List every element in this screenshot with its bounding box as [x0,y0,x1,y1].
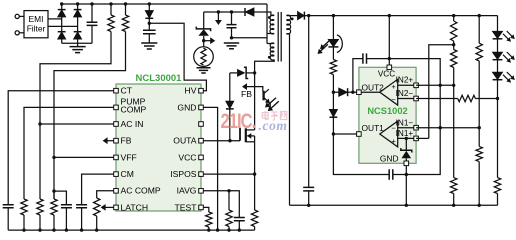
resistor R11 [451,21,457,41]
wire op-amp1 + input to IN1+ pin [398,137,416,139]
transformer T1 secondary polarity dot [291,18,294,21]
junction at (54,191.1) [52,189,55,192]
wire bridge left column bottom [61,39,63,43]
wire R7 to ground rail [254,227,256,231]
wire primary bottom to switch node [255,60,275,73]
clamp diode D6 [245,8,254,16]
optocoupler U3 phototransistor [262,91,264,101]
wire ISPOS pin to sense node [203,173,254,175]
capacitor C6 plates (CM) [76,205,87,208]
junction at (229,190.8) [227,189,230,192]
bulk capacitor C1 [91,4,93,22]
wire R1 to AC IN column [40,32,111,200]
clamp network top line [204,11,245,13]
resistor R9 (TEST) [206,212,212,227]
capacitor C5 plates (VFF) [61,205,72,208]
wire R3 to ground rail [23,215,25,230]
wire AC IN pin [40,123,114,125]
secondary output rail [305,15,498,17]
AC input terminal bottom [15,31,19,35]
ground symbol at C2 [141,43,157,49]
junction at (308.7,205.3) [307,204,310,207]
wire D10 to OUT1 node [332,117,334,134]
wire C7 to ground rail [238,221,240,230]
pin FB (left) of NCL30001 [114,138,119,143]
watermark chinese characters [262,111,287,120]
FB net arrow at NCL30001 FB pin [107,140,114,142]
junction at (453.7,15.6) [452,14,455,17]
junction at (96.7,230.1) [95,228,98,231]
resistor R3 (PUMP COMP) [21,199,27,215]
wire terminal to EMI filter top [19,15,24,17]
svg-text:IN1−: IN1− [396,118,414,127]
potentiometer R6 (AC COMP / LATCH) [94,198,100,216]
svg-text:IN1+: IN1+ [396,129,414,138]
junction at (479.2,15.6) [478,14,481,17]
junction at (406.3,205.3) [405,204,408,207]
bridge rectifier diode D4 (right bottom) [77,17,79,32]
junction at (111,4) [109,2,112,5]
junction at (497.5,98.5) [496,97,499,100]
junction at (479.2,205.3) [478,204,481,207]
wire clamp diode to primary top [254,12,274,16]
junction at (54,157.4) [52,156,55,159]
wire C10 to return rail [308,191,310,205]
svg-text:HV: HV [185,86,197,96]
top bulk rail [62,3,267,5]
pin HV (right) of NCL30001 [199,88,204,93]
optocoupler U3 LED [332,16,334,40]
junction at (254.6,174.1) [253,172,256,175]
capacitor C2 plates [143,30,156,33]
diode D5 (HV startup feed) [148,4,150,11]
svg-text:21IC.: 21IC. [221,110,256,133]
wire C6 to ground rail [81,208,83,230]
junction at (406.3,138.4) [405,137,408,140]
wire IAVG pin to C7 [203,191,239,218]
junction at (389.3,58.6) [388,57,391,60]
wire R5 to ground rail [53,215,55,230]
LED D13 [493,72,503,79]
wire VFF node to R5 [53,191,55,199]
resistor R5 (VFF) [51,199,57,215]
svg-text:AC COMP: AC COMP [121,186,161,196]
junction at (218.4,12) [217,10,220,13]
zener diode ZD1 [203,12,205,29]
pin VCC (right) of NCL30001 [199,155,204,160]
svg-text:VCC: VCC [378,69,395,78]
wire terminal to EMI filter bottom [19,32,24,34]
junction at (229,230.1) [227,228,230,231]
wire TEST pin to R9 [203,207,209,212]
capacitor C8 plates [389,169,393,179]
LED string feed [497,16,499,32]
LED D11 [493,31,503,38]
wire R12 down [453,68,455,178]
resistor R7 (current sense) [251,210,257,227]
wire IN1- pin to R13 column [416,127,479,129]
wire HV startup to HV pin [149,23,206,90]
wire output cap branch down [308,16,310,188]
junction at (125.5,4) [124,2,127,5]
junction at (308.7,15.6) [307,14,310,17]
wire VCC node to C9 [367,58,389,60]
resistor R16 zigzag [458,95,476,101]
wire OUTA pin to MOSFET gate [203,140,240,142]
resistor R8 (IAVG) [226,210,232,227]
IC NCL30001 body [116,84,201,211]
wire divider tap to IN1+ column [429,45,454,139]
pin AC IN (left) of NCL30001 [114,122,119,127]
resistor R14 (bottom left) [451,178,457,194]
diode D7 (gate/aux, pointing down) [229,73,231,101]
primary ground rail [8,229,254,231]
wire C5 to ground rail [65,208,67,230]
svg-text:Filter: Filter [27,24,46,34]
resistor R10 (opto LED) [330,60,336,75]
svg-text:GND: GND [380,154,399,164]
junction at (352.9,92.2) [351,91,354,94]
wire switch node (drain vertical) [254,73,256,130]
junction at (479.2,127.7) [478,126,481,129]
wire R16 to LED string [475,98,497,100]
svg-text:ISPOS: ISPOS [170,169,197,179]
junction at (231.5,37.8) [230,36,233,39]
svg-text:OUT1: OUT1 [362,123,385,133]
junction at (230,140.7) [228,139,231,142]
resistor R1 [108,15,114,32]
pin GND (bottom) of NCS1002 [404,161,409,166]
wire R15 to return rail [478,162,480,206]
junction at (453.7,205.3) [452,204,455,207]
wire VFF pin [54,156,114,158]
junction at (333.4,15.6) [332,14,335,17]
wire C9 to OUT2 node [353,59,363,93]
svg-text:IN2−: IN2− [396,89,414,98]
transformer T1 lower winding polarity dot [268,56,271,59]
ground symbol at varistor [197,68,211,73]
wire EMI to bridge left column [48,18,62,20]
wire GND pin to primary ground rail [203,107,217,230]
pin TEST (right) of NCL30001 [199,205,204,210]
pin OUT2 (left) of NCS1002 [357,90,362,95]
pin IN1- (right) of NCS1002 [414,125,419,130]
wire bridge bottom to bulk cap [62,42,92,44]
pin NC (right) of NCL30001 [199,122,204,127]
svg-text:COMP: COMP [121,104,147,114]
junction at (81.6,230.1) [80,228,83,231]
diode D9 (to OUT2) [333,91,338,93]
svg-text:VCC: VCC [178,152,196,162]
wire OUT1 node down to C8 [333,134,389,175]
op-amp U2A (OUT2) [380,79,398,105]
wire R14 to return rail [453,194,455,206]
junction at (40,230.1) [38,228,41,231]
resistor R1 (divider to AC IN) [110,4,112,15]
wire IAVG node to R8 [228,191,230,210]
bridge rectifier diode D3 (right top) [77,4,79,10]
wire op-amp2 - input to IN2- pin [398,98,416,100]
svg-text:CM: CM [121,169,134,179]
wire C8 to IN1- column [393,128,440,175]
wire R17 to return rail [497,194,499,206]
LED D12 [493,52,503,59]
pin LATCH (left) of NCL30001 [114,205,119,210]
junction at (66.4,230.1) [65,228,68,231]
resistor R2 (divider to VFF) [125,4,127,15]
pin IN2+ (right) of NCS1002 [414,83,419,88]
capacitor C1 plates [87,22,98,25]
wire R4 to ground rail [39,215,41,230]
ground at bridge [77,43,79,46]
junction at (77.6,4) [76,2,79,5]
wire R13 down [478,61,480,146]
wire OUT1 node to OUT1 pin [333,133,359,135]
zener diode ZD2 (snubber to switch node) [230,72,237,74]
junction at (406.3,174.5) [405,173,408,176]
svg-text:OUT2: OUT2 [362,82,385,92]
transformer T1 primary upper winding [266,4,268,44]
pin VCC (top) of NCS1002 [387,65,392,70]
pin OUT1 (left) of NCS1002 [357,132,362,137]
wire IN1+ pin out [416,137,429,139]
wire primary upper bottom stub [267,33,274,35]
junction at (440.2,85.3) [439,84,442,87]
pin VFF (left) of NCL30001 [114,155,119,160]
wire R2 to VFF column [54,32,126,200]
svg-text:TEST: TEST [175,202,198,212]
junction at (61.7,4) [60,2,63,5]
junction at (40,124) [38,122,41,125]
junction at (231.5,12) [230,10,233,13]
transformer T1 primary lower winding [267,43,274,45]
ground symbol bridge [70,47,86,53]
secondary return rail [290,204,498,206]
pin ISPOS (right) of NCL30001 [199,172,204,177]
wire R9 to ground rail [208,227,210,230]
svg-text:OUTA: OUTA [173,136,197,146]
wire R10 to OUT2 node [332,75,334,93]
svg-text:CT: CT [121,86,133,96]
svg-text:AC IN: AC IN [121,119,144,129]
junction at (149.3,23.3) [148,22,151,25]
bridge rectifier diode D1 (left top) [61,4,63,10]
wire IN2+ pin to divider [416,84,454,86]
wire op-amp2 output to OUT2 pin [361,91,380,93]
capacitor C7 plates (IAVG) [234,218,245,221]
capacitor C3 plates [227,25,237,28]
bridge rectifier diode D2 (left bottom) [61,17,63,32]
zener diode ZD3 at GND pin [405,138,407,150]
AC input terminal top [15,14,19,18]
diode D10 (down) [332,92,334,109]
surge arrow (down) [217,12,219,22]
wire op-amp2 + input to IN2+ pin [398,84,416,86]
wire bridge right column bottom [77,39,79,43]
resistor R11 (upper divider) [453,16,455,21]
pin IAVG (right) of NCL30001 [199,189,204,194]
op-amp U2B (OUT1) [380,121,398,147]
wire PUMP COMP to R3 [24,107,114,199]
junction at (92,4) [90,2,93,5]
pin IN2- (right) of NCS1002 [414,96,419,101]
resistor R13 (middle column upper) [478,16,480,44]
junction at (208.8,230.1) [207,228,210,231]
svg-text:IN2+: IN2+ [396,75,414,84]
svg-text:VFF: VFF [121,152,137,162]
ground symbol at clamp [224,43,239,49]
wire MOSFET source down [254,136,256,174]
wire D7 to OUTA node [229,109,231,141]
wire IN2+ column down to IN1- [439,85,441,127]
wire sense node to R7 [254,174,256,210]
varistor RV1 (circle with zigzag) [194,47,214,67]
svg-text:GND: GND [177,102,196,112]
resistor R15 (middle column lower) [476,146,482,161]
wire D9 to OUT2 pin [348,91,359,93]
capacitor C9 plates [363,53,367,63]
resistor R17 (LED string sense) [494,178,500,194]
FB net arrow to optocoupler collector [245,87,263,92]
EMI Filter block [24,11,48,38]
wire GND branch to output return rail [405,175,407,206]
wire op-amp1 - input to IN1- pin [398,127,416,129]
wire LED string down [497,99,499,178]
resistor R16 (IN2- series) [416,98,458,100]
junction at (453.7,44.7) [452,43,455,46]
IC NCS1002 body [359,67,416,163]
clamp capacitor C3 [231,12,233,25]
pin PUMP COMP (left) of NCL30001 [114,105,119,110]
wire CT pin to timing capacitor [8,91,114,205]
pin OUTA (right) of NCL30001 [199,138,204,143]
secondary output diode D8 [286,15,297,17]
junction at (149.3,4) [148,2,151,5]
junction at (54,230.1) [52,228,55,231]
pin GND (right) of NCL30001 [199,105,204,110]
wire VCC node over to IN2+ column [389,59,440,86]
junction at (24,230.1) [22,228,25,231]
resistor R2 [122,15,128,32]
wire EMI to bridge right column [48,25,78,27]
transformer T1 core [278,12,281,62]
wire R8 to ground rail [228,227,230,231]
resistor R12 (lower divider) [451,50,457,68]
wire C4 to ground rail [7,208,9,230]
MOSFET Q1 [239,128,241,141]
transformer T1 secondary winding [286,15,290,34]
junction at (203.7,40.7) [202,39,205,42]
junction at (239.3,230.1) [238,228,241,231]
svg-text:IAVG: IAVG [177,186,197,196]
svg-text:.com: .com [259,118,288,133]
wire AC COMP pin to R6 [97,191,114,198]
gate arrow at varistor [204,40,212,42]
VCC feed from output rail [388,16,390,65]
pin CT (left) of NCL30001 [114,88,119,93]
wire clamp to bulk rail corner [232,37,268,39]
wire R6 to ground rail [96,216,98,230]
junction at (333.4,134) [332,132,335,135]
svg-text:LATCH: LATCH [121,202,149,212]
junction at (333.4,92.2) [332,91,335,94]
svg-text:NCL30001: NCL30001 [136,73,183,84]
pin AC COMP (left) of NCL30001 [114,189,119,194]
wire CM pin to C6 [82,174,114,205]
wire VFF node to C5 [54,191,66,205]
junction at (453.7,85.3) [452,84,455,87]
capacitor C4 plates (CT) [3,205,14,208]
capacitor C10 plates (output filter) [303,187,314,191]
resistor R4 (AC IN) [37,199,43,215]
pin CM (left) of NCL30001 [114,172,119,177]
junction at (217.6,230.1) [216,228,219,231]
pin IN1+ (right) of NCS1002 [414,136,419,141]
resistor R13 [476,43,482,61]
junction at (440.2,127.7) [439,126,442,129]
transformer T1 primary polarity dot [268,16,271,19]
svg-text:NCS1002: NCS1002 [367,106,407,116]
junction at (254.6,72.9) [253,71,256,74]
svg-text:FB: FB [121,136,132,146]
svg-text:FB: FB [241,89,252,99]
LATCH wiper arrow [105,206,114,208]
junction at (389.3,15.6) [388,14,391,17]
wire secondary bottom to output return rail [286,34,289,206]
